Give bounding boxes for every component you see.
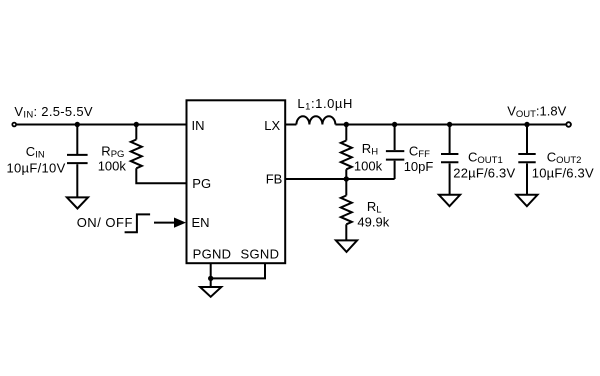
svg-text:ON/ OFF: ON/ OFF bbox=[77, 215, 133, 230]
svg-text:10µF/6.3V: 10µF/6.3V bbox=[532, 165, 594, 180]
svg-text:IN: IN bbox=[192, 118, 205, 133]
svg-text:PG: PG bbox=[192, 176, 211, 191]
svg-text:PGND: PGND bbox=[193, 247, 232, 262]
svg-text:SGND: SGND bbox=[241, 247, 280, 262]
svg-text:10µF/10V: 10µF/10V bbox=[7, 160, 66, 175]
svg-text:FB: FB bbox=[266, 172, 283, 187]
svg-text:22µF/6.3V: 22µF/6.3V bbox=[453, 165, 515, 180]
svg-text:49.9k: 49.9k bbox=[357, 215, 389, 230]
svg-text:10pF: 10pF bbox=[404, 159, 434, 174]
svg-text:100k: 100k bbox=[354, 159, 383, 174]
svg-text:100k: 100k bbox=[98, 158, 127, 173]
svg-text:LX: LX bbox=[264, 118, 280, 133]
svg-text:EN: EN bbox=[192, 215, 210, 230]
